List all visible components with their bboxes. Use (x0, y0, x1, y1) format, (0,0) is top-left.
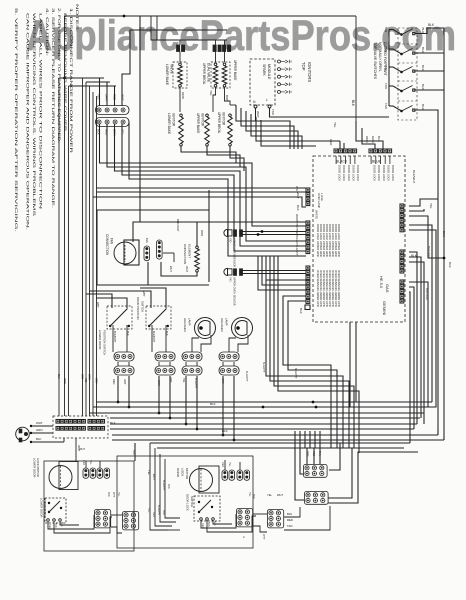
svg-text:YEL: YEL (84, 378, 87, 383)
svg-text:ORN: ORN (365, 136, 369, 143)
svg-text:IGNITOR: IGNITOR (172, 113, 176, 127)
svg-text:WHT: WHT (256, 111, 260, 118)
svg-text:LOCK: LOCK (181, 468, 185, 476)
svg-text:TAN: TAN (384, 46, 388, 52)
svg-text:NORMALLY OPEN,: NORMALLY OPEN, (378, 42, 382, 72)
svg-text:WHT: WHT (296, 192, 300, 199)
wire ignitor bottoms (181, 146, 236, 163)
svg-text:GRN: GRN (36, 428, 42, 432)
svg-text:WHT: WHT (295, 186, 299, 193)
svg-text:UPPER BAKE: UPPER BAKE (233, 60, 237, 80)
control board dashed outline (313, 156, 405, 322)
wire bus horizontals mid (97, 187, 307, 189)
connector board right strip2 (400, 250, 404, 254)
svg-text:BLK: BLK (428, 23, 435, 27)
svg-text:DOOR LOCK: DOOR LOCK (352, 165, 356, 181)
top valve switch box (398, 28, 417, 120)
svg-text:L LINE: L LINE (320, 193, 324, 201)
wire top connector risers (99, 78, 101, 106)
svg-text:BLK: BLK (210, 402, 216, 406)
svg-text:WHT: WHT (295, 214, 299, 221)
lower door position switch (107, 306, 132, 329)
svg-text:MODULE: MODULE (267, 64, 271, 80)
svg-text:LAMP: LAMP (188, 318, 192, 326)
wire power to connector (31, 425, 53, 427)
svg-text:DOOR LOCK: DOOR LOCK (342, 165, 346, 181)
wire upper sensor to board (243, 270, 307, 272)
main connector strip B (88, 420, 92, 424)
svg-text:BLK/WHT: BLK/WHT (176, 219, 180, 232)
spark module pins (254, 105, 257, 108)
lower halogen connector (182, 352, 202, 361)
svg-text:CONVECTION: CONVECTION (105, 234, 109, 256)
svg-text:RED: RED (287, 518, 293, 522)
svg-text:TAN: TAN (167, 484, 170, 489)
right cluster connector top (304, 465, 328, 478)
svg-text:DOOR LOCK: DOOR LOCK (337, 165, 341, 181)
wire motor pills up (224, 460, 226, 470)
svg-text:YEL: YEL (182, 378, 185, 383)
svg-text:BLK: BLK (448, 262, 452, 268)
svg-text:BLK/WHT: BLK/WHT (162, 480, 165, 491)
right lock connector 1 (268, 510, 284, 528)
power cord entry (16, 427, 30, 441)
wire switch internals to pills (112, 325, 114, 352)
svg-text:DOOR LOCK: DOOR LOCK (372, 165, 376, 181)
top ignitor electrodes (278, 60, 281, 63)
wire right lock links (201, 514, 236, 528)
lower door switch connector (114, 352, 134, 361)
svg-text:DOOR POSITION: DOOR POSITION (136, 297, 140, 320)
wire black blue connector feeds (356, 121, 383, 149)
svg-text:RED: RED (329, 139, 333, 146)
connector board left strip3 (306, 266, 310, 270)
convection enclosure (97, 210, 209, 285)
pin label hatching blue (370, 156, 372, 164)
svg-text:WHT: WHT (262, 534, 265, 540)
wire right bottom bends (437, 430, 439, 435)
main connector strip A (56, 420, 60, 424)
wire right vertical blk2 (415, 110, 438, 430)
svg-text:YEL: YEL (429, 203, 433, 209)
wire pill mid links (117, 362, 119, 366)
svg-text:LOWER BAKE: LOWER BAKE (167, 113, 171, 134)
svg-text:IGNITORS: IGNITORS (307, 62, 312, 82)
lower door lock motor (49, 466, 72, 489)
svg-text:DOOR LOCK: DOOR LOCK (356, 165, 360, 181)
svg-text:WHT: WHT (152, 474, 156, 480)
svg-text:BLK: BLK (421, 65, 425, 71)
wire valve top feed (151, 16, 227, 40)
wire bus to board horizontals (97, 191, 307, 193)
connector board left strip1 (306, 188, 310, 192)
door position switch (146, 306, 171, 329)
lower lock connector (95, 510, 111, 528)
door lock motor connector (222, 470, 228, 480)
svg-text:CONVECTION: CONVECTION (183, 244, 187, 264)
svg-text:LABEL ALL WIRES PRIOR TO DISCO: LABEL ALL WIRES PRIOR TO DISCONNECTION (39, 13, 43, 210)
svg-text:BLK/WHT: BLK/WHT (295, 245, 298, 256)
svg-text:WHT: WHT (96, 302, 99, 308)
svg-text:YEL: YEL (228, 462, 231, 467)
svg-text:WHITE: WHITE (315, 210, 319, 219)
svg-text:ORN: ORN (200, 230, 204, 236)
svg-text:WHT: WHT (185, 266, 189, 273)
svg-text:BLK: BLK (222, 429, 228, 433)
svg-text:YEL: YEL (89, 460, 92, 465)
svg-text:YEL: YEL (147, 470, 151, 475)
svg-text:BEFORE REMOVING WIRE COVER.: BEFORE REMOVING WIRE COVER. (63, 13, 67, 133)
connector board right strip1 (400, 204, 404, 208)
svg-text:BLACK: BLACK (336, 160, 348, 164)
svg-text:TAN: TAN (271, 109, 275, 115)
svg-text:YEL: YEL (248, 492, 251, 497)
svg-text:GRY: GRY (81, 374, 84, 380)
wire cluster to right bus (329, 443, 340, 470)
svg-text:ORN: ORN (88, 374, 91, 380)
door switch connector (155, 352, 175, 361)
lower door lock motor connector (83, 468, 89, 478)
wire center connector risers (150, 443, 168, 530)
svg-text:1. DISCONNECT RANGE FROM POWER: 1. DISCONNECT RANGE FROM POWER (69, 8, 73, 154)
svg-text:TAN: TAN (107, 492, 110, 497)
svg-text:GAS: GAS (385, 284, 390, 293)
top valve switch group (400, 33, 403, 36)
svg-text:BLK: BLK (421, 47, 425, 53)
wire top of lock section (117, 436, 310, 438)
svg-text:WHT: WHT (277, 493, 283, 497)
wire top horizontal bus L1 (65, 15, 357, 17)
wire bottom horizontal bus (97, 401, 433, 403)
svg-text:UPPER BROIL: UPPER BROIL (202, 63, 206, 85)
svg-text:UPPER OVEN SENSOR: UPPER OVEN SENSOR (233, 277, 237, 306)
connector P4 row2 (96, 118, 130, 127)
svg-text:FAN: FAN (110, 238, 114, 245)
main connector dashed box (53, 416, 108, 438)
svg-text:POSITION SWITCH: POSITION SWITCH (103, 330, 107, 355)
svg-text:WHEN SERVICING CONTROLS. WIRIN: WHEN SERVICING CONTROLS. WIRING PROBLEMS (32, 13, 36, 218)
svg-text:ORN: ORN (181, 92, 185, 99)
svg-text:RED: RED (82, 460, 85, 465)
svg-text:GRN: GRN (371, 136, 375, 143)
svg-text:DOOR: DOOR (176, 468, 180, 478)
connector board right strip3 (400, 280, 404, 284)
wire top blk horizontal (355, 16, 357, 121)
svg-text:BLK: BLK (421, 104, 425, 110)
svg-text:BLK: BLK (299, 308, 303, 314)
svg-text:YEL: YEL (267, 493, 272, 497)
convection fan connector (144, 246, 150, 261)
svg-text:NOTES:: NOTES: (75, 4, 79, 32)
svg-text:GRY: GRY (95, 378, 98, 384)
svg-text:GEMINI: GEMINI (382, 301, 387, 315)
left door lock assembly box (44, 461, 134, 551)
svg-text:YEL: YEL (97, 94, 101, 100)
svg-text:TAN: TAN (132, 450, 135, 455)
wire lamp row drops (117, 376, 119, 402)
svg-text:DOOR LOCK: DOOR LOCK (347, 165, 351, 181)
svg-text:DUAL VALVE: DUAL VALVE (207, 63, 211, 82)
svg-text:WHT: WHT (36, 421, 43, 425)
svg-text:IGNITOR: IGNITOR (222, 112, 226, 126)
svg-text:WHT: WHT (121, 94, 125, 101)
svg-text:BLK: BLK (351, 100, 355, 107)
svg-text:WHT: WHT (112, 492, 115, 498)
connector board left strip2 (306, 221, 310, 225)
svg-text:BLK: BLK (126, 331, 129, 336)
connector BLUE header (369, 149, 373, 153)
wire broil valve to nest (230, 104, 236, 106)
svg-text:TAN: TAN (384, 83, 388, 89)
svg-text:TAN: TAN (252, 494, 255, 499)
svg-text:VIO: VIO (229, 238, 233, 242)
svg-text:HALOGEN: HALOGEN (220, 318, 224, 332)
connector P4 row1 (96, 106, 130, 115)
svg-text:5. VERIFY PROPER OPERATION AFT: 5. VERIFY PROPER OPERATION AFTER SERVICI… (14, 8, 18, 232)
right lock connector 0 (237, 509, 253, 527)
wire board right to buses (409, 199, 438, 206)
upper oven sensor (224, 268, 228, 275)
svg-text:TAN: TAN (384, 27, 388, 33)
bus junction dots (312, 401, 315, 404)
svg-text:SPARK: SPARK (262, 64, 266, 77)
wires below P4 (100, 124, 307, 226)
wire stubs into switch area (168, 529, 180, 531)
svg-text:UPPER BROIL: UPPER BROIL (217, 112, 221, 134)
svg-text:IGNITOR: IGNITOR (201, 113, 205, 127)
spark module box (250, 59, 275, 105)
svg-text:DOOR LOCK: DOOR LOCK (391, 165, 395, 181)
svg-text:WHT: WHT (169, 266, 173, 272)
svg-text:BLK: BLK (57, 374, 60, 379)
svg-text:TAN: TAN (287, 524, 292, 528)
wire tan feeds (388, 30, 390, 107)
svg-text:TAN: TAN (384, 64, 388, 70)
halogen connector (219, 352, 239, 361)
svg-text:DOOR LOCK: DOOR LOCK (382, 165, 386, 181)
svg-text:LOWER DOOR: LOWER DOOR (40, 498, 44, 517)
wire switch tops (86, 294, 112, 308)
svg-text:BLK: BLK (287, 512, 292, 516)
svg-text:RED: RED (112, 379, 115, 384)
svg-text:DOOR LOCK: DOOR LOCK (377, 165, 381, 181)
svg-text:BLK: BLK (165, 331, 168, 336)
svg-text:LAMP: LAMP (225, 318, 229, 326)
connector BLACK header (334, 149, 338, 153)
right cluster connector bottom (305, 492, 329, 505)
svg-text:MOTOR: MOTOR (185, 468, 189, 480)
svg-text:WHT: WHT (142, 291, 145, 297)
svg-text:BLK: BLK (442, 231, 446, 237)
svg-text:BLK/WHT: BLK/WHT (412, 170, 416, 184)
svg-text:HALOGEN: HALOGEN (183, 318, 187, 332)
svg-text:SWITCH: SWITCH (190, 496, 194, 507)
svg-text:YEL: YEL (209, 90, 213, 96)
wire nest to black blue connectors (236, 105, 290, 149)
svg-text:BLK/WHT: BLK/WHT (245, 371, 248, 382)
svg-text:ORN: ORN (105, 94, 109, 101)
wire left vertical bus (58, 78, 60, 416)
svg-text:DOOR LOCK: DOOR LOCK (387, 165, 391, 181)
wire bottom cluster risers (294, 431, 296, 448)
svg-text:LOWER DOOR: LOWER DOOR (98, 330, 102, 349)
wire blk/wht drop from board (355, 322, 357, 402)
svg-text:RED: RED (221, 462, 224, 467)
svg-text:TOP VALVE SWITCHES: TOP VALVE SWITCHES (373, 42, 377, 80)
wire bundle to strip3 (266, 256, 306, 280)
svg-text:ORN: ORN (63, 378, 66, 384)
svg-text:LOCK MOTOR: LOCK MOTOR (36, 458, 40, 477)
svg-text:BLK: BLK (421, 84, 425, 90)
svg-text:UPPER BAKE: UPPER BAKE (196, 113, 200, 133)
lower lock connector B (123, 512, 139, 530)
lower bake valve connector (177, 45, 180, 52)
svg-text:L: L (266, 98, 268, 102)
svg-text:BLK: BLK (421, 28, 425, 34)
lower oven sensor (224, 229, 228, 236)
svg-text:VIO: VIO (229, 277, 233, 281)
svg-text:CAN CAUSE IMPROPER AND DANGERO: CAN CAUSE IMPROPER AND DANGEROUS OPERATI… (26, 13, 30, 230)
svg-text:BLK: BLK (145, 238, 149, 243)
wire blk from switches to right bus (415, 28, 444, 437)
svg-text:BLK: BLK (296, 205, 300, 211)
wire bus top bends (59, 77, 104, 79)
svg-text:GRY: GRY (123, 379, 126, 385)
pin label hatching black (335, 156, 337, 164)
svg-text:BLK: BLK (110, 421, 116, 425)
door lock switch (194, 496, 220, 521)
svg-text:3. SERVICER PLEASE RETURN DIAG: 3. SERVICER PLEASE RETURN DIAGRAM TO RAN… (51, 8, 55, 208)
svg-text:OVEN SENSOR LOWER UPR: OVEN SENSOR LOWER UPR (337, 270, 341, 307)
svg-text:LOWER OVEN SENSOR: LOWER OVEN SENSOR (233, 238, 237, 267)
svg-text:SWITCH: SWITCH (141, 301, 145, 312)
wire convection links (133, 222, 197, 246)
svg-text:ELEMENT: ELEMENT (188, 244, 192, 258)
svg-text:DOOR LOCK: DOOR LOCK (186, 494, 190, 511)
svg-text:TAN: TAN (384, 103, 388, 109)
wire lower sensor to board (243, 231, 307, 233)
wire bundle down from sensors area (266, 280, 343, 448)
svg-text:DOOR LOCK UPPER LWR: DOOR LOCK UPPER LWR (337, 224, 341, 257)
wire below strip WHT (75, 438, 77, 461)
svg-text:TOP: TOP (301, 62, 306, 71)
svg-text:RED: RED (113, 94, 117, 101)
svg-text:YEL: YEL (333, 122, 337, 128)
svg-text:4. CAUTION:: 4. CAUTION: (45, 8, 49, 56)
svg-text:BLK/WHT: BLK/WHT (294, 368, 297, 379)
svg-text:WHT: WHT (79, 447, 85, 451)
svg-text:YEL: YEL (117, 492, 120, 497)
dual valve connector (213, 45, 216, 52)
right door lock assembly box (117, 456, 253, 548)
lower door lock switch (45, 498, 66, 523)
svg-text:BLK: BLK (36, 437, 42, 441)
wire lower lock links (48, 515, 94, 529)
svg-text:AppliancePartsPros.com: AppliancePartsPros.com (26, 12, 456, 60)
svg-text:LOWER DOOR: LOWER DOOR (33, 458, 37, 477)
svg-text:BLK/WHT: BLK/WHT (262, 362, 265, 373)
svg-text:LOWER BAKE: LOWER BAKE (165, 64, 169, 85)
svg-text:HE 5.0: HE 5.0 (379, 276, 384, 289)
